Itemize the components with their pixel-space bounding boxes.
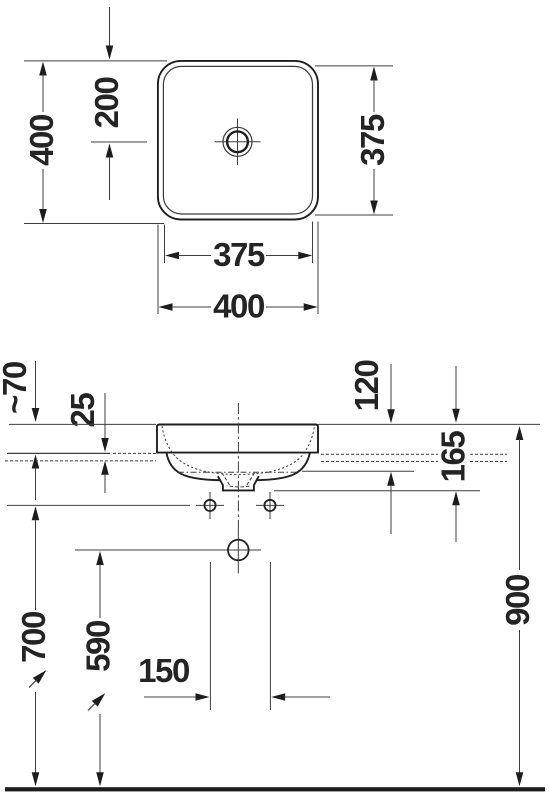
drain neck hidden dashes [222, 473, 230, 485]
dim 590 arrow down [96, 772, 104, 786]
svg-text:200: 200 [88, 78, 125, 129]
dim 120 arrow down [390, 364, 392, 410]
svg-text:590: 590 [80, 621, 117, 672]
rim-top extension line left [9, 423, 156, 425]
dim 200 top arrow (down, outside) [109, 7, 111, 46]
floor line [5, 787, 545, 791]
drain inner circle [227, 131, 248, 152]
svg-text:400: 400 [213, 288, 264, 325]
mounting holes extension line (left) [7, 504, 190, 506]
svg-text:25: 25 [64, 393, 101, 428]
dim 900 arrow down [516, 772, 524, 786]
hidden counter dashed (left lower) [5, 460, 156, 462]
hidden counter dashed (right upper) [321, 453, 438, 455]
drain neck outline [218, 476, 259, 490]
extension line top edge (left) [24, 60, 167, 62]
dim 700 stem lower [35, 692, 37, 774]
svg-text:700: 700 [15, 612, 52, 663]
dim 900 stem lower [519, 630, 521, 774]
svg-text:375: 375 [354, 114, 391, 166]
mounting hole right crosshair [256, 504, 284, 506]
svg-text:900: 900 [499, 575, 536, 626]
dim 165 arrow down [455, 366, 457, 410]
dim 375 right stem lower [373, 169, 375, 202]
dim 200 tick at centre [91, 141, 147, 143]
dim 590 stem lower [99, 714, 101, 774]
dim 400 left stem upper [42, 74, 44, 112]
hidden inner bowl dotted curve [162, 426, 315, 475]
basin rim bottom ledge [156, 452, 319, 454]
extension line bottom edge (left) [24, 223, 164, 225]
dim 150 arrow left-pointing [271, 693, 285, 701]
basin inner rim (top view) [163, 66, 312, 214]
dim 900 arrow up [516, 426, 524, 440]
centreline vertical [237, 403, 239, 527]
dim 120 arrow up [387, 472, 395, 486]
dim 400 bottom arrow right [266, 306, 305, 308]
mounting hole left [204, 500, 215, 511]
dim 375 bottom arrow left [165, 252, 179, 260]
dim ~70 arrow up (to counter line) [32, 455, 40, 469]
dim 25 arrow up [101, 461, 109, 475]
dim 400 left arrow up [39, 62, 47, 76]
extension line drain bottom (right) [274, 490, 480, 492]
svg-text:165: 165 [435, 431, 472, 483]
dim 700 arrow down [32, 772, 40, 786]
bowl outer curve [167, 453, 310, 481]
hidden bottom dash-dot line [178, 471, 298, 473]
drain neck white mask [217, 476, 260, 491]
dim 400 left arrow down [39, 209, 47, 223]
dim 400 left stem lower [42, 169, 44, 211]
svg-text:120: 120 [348, 361, 385, 412]
dim 200 bottom arrow (up, outside) [106, 144, 114, 158]
basin rim outline (front) [157, 425, 318, 453]
dim 25 arrow down [104, 393, 106, 439]
dim 150 extension verticals [209, 562, 211, 710]
dim 165 arrow up [452, 491, 460, 505]
dim 700 arrow up [32, 506, 40, 520]
dim 150 arrow right-pointing [144, 696, 197, 698]
counter line solid (left) [7, 452, 110, 454]
dim 375 right arrow down [370, 201, 378, 215]
extension verticals below square: 400 pair [157, 225, 159, 315]
svg-text:~70: ~70 [0, 362, 33, 414]
extension line basin interior bottom (right) [302, 470, 414, 472]
dim 375 right arrow up [370, 67, 378, 81]
extension line inner bottom (right) [315, 214, 393, 216]
dim 700 continuation arrow [26, 667, 49, 690]
dim 400 bottom arrow left [159, 303, 173, 311]
dim 590 arrow up [96, 551, 104, 565]
extension line inner top (right) [315, 65, 393, 67]
dim ~70 arrow down (to rim top) [35, 361, 37, 409]
svg-text:150: 150 [138, 652, 189, 689]
hidden counter dashed (right lower) [321, 461, 438, 463]
svg-text:400: 400 [23, 115, 60, 166]
dim 375 bottom arrow right [266, 255, 299, 257]
basin outer rim (top view) [158, 61, 318, 220]
drain crosshair vertical [237, 119, 239, 166]
counter line dashes to basin [113, 452, 156, 454]
mounting hole right [264, 500, 275, 511]
mounting hole left crosshair [196, 504, 224, 506]
svg-text:375: 375 [213, 236, 265, 273]
dim 590 continuation arrow [85, 690, 108, 713]
drain crosshair horizontal [215, 141, 261, 143]
drain outlet crosshair vertical [237, 527, 239, 574]
drain outlet crosshair horizontal + extension left [75, 549, 261, 551]
rim-top extension line right [318, 423, 540, 425]
drain outlet circle [228, 540, 249, 561]
extension verticals below square: 375 pair [164, 225, 166, 264]
drain outer circle [223, 127, 252, 156]
